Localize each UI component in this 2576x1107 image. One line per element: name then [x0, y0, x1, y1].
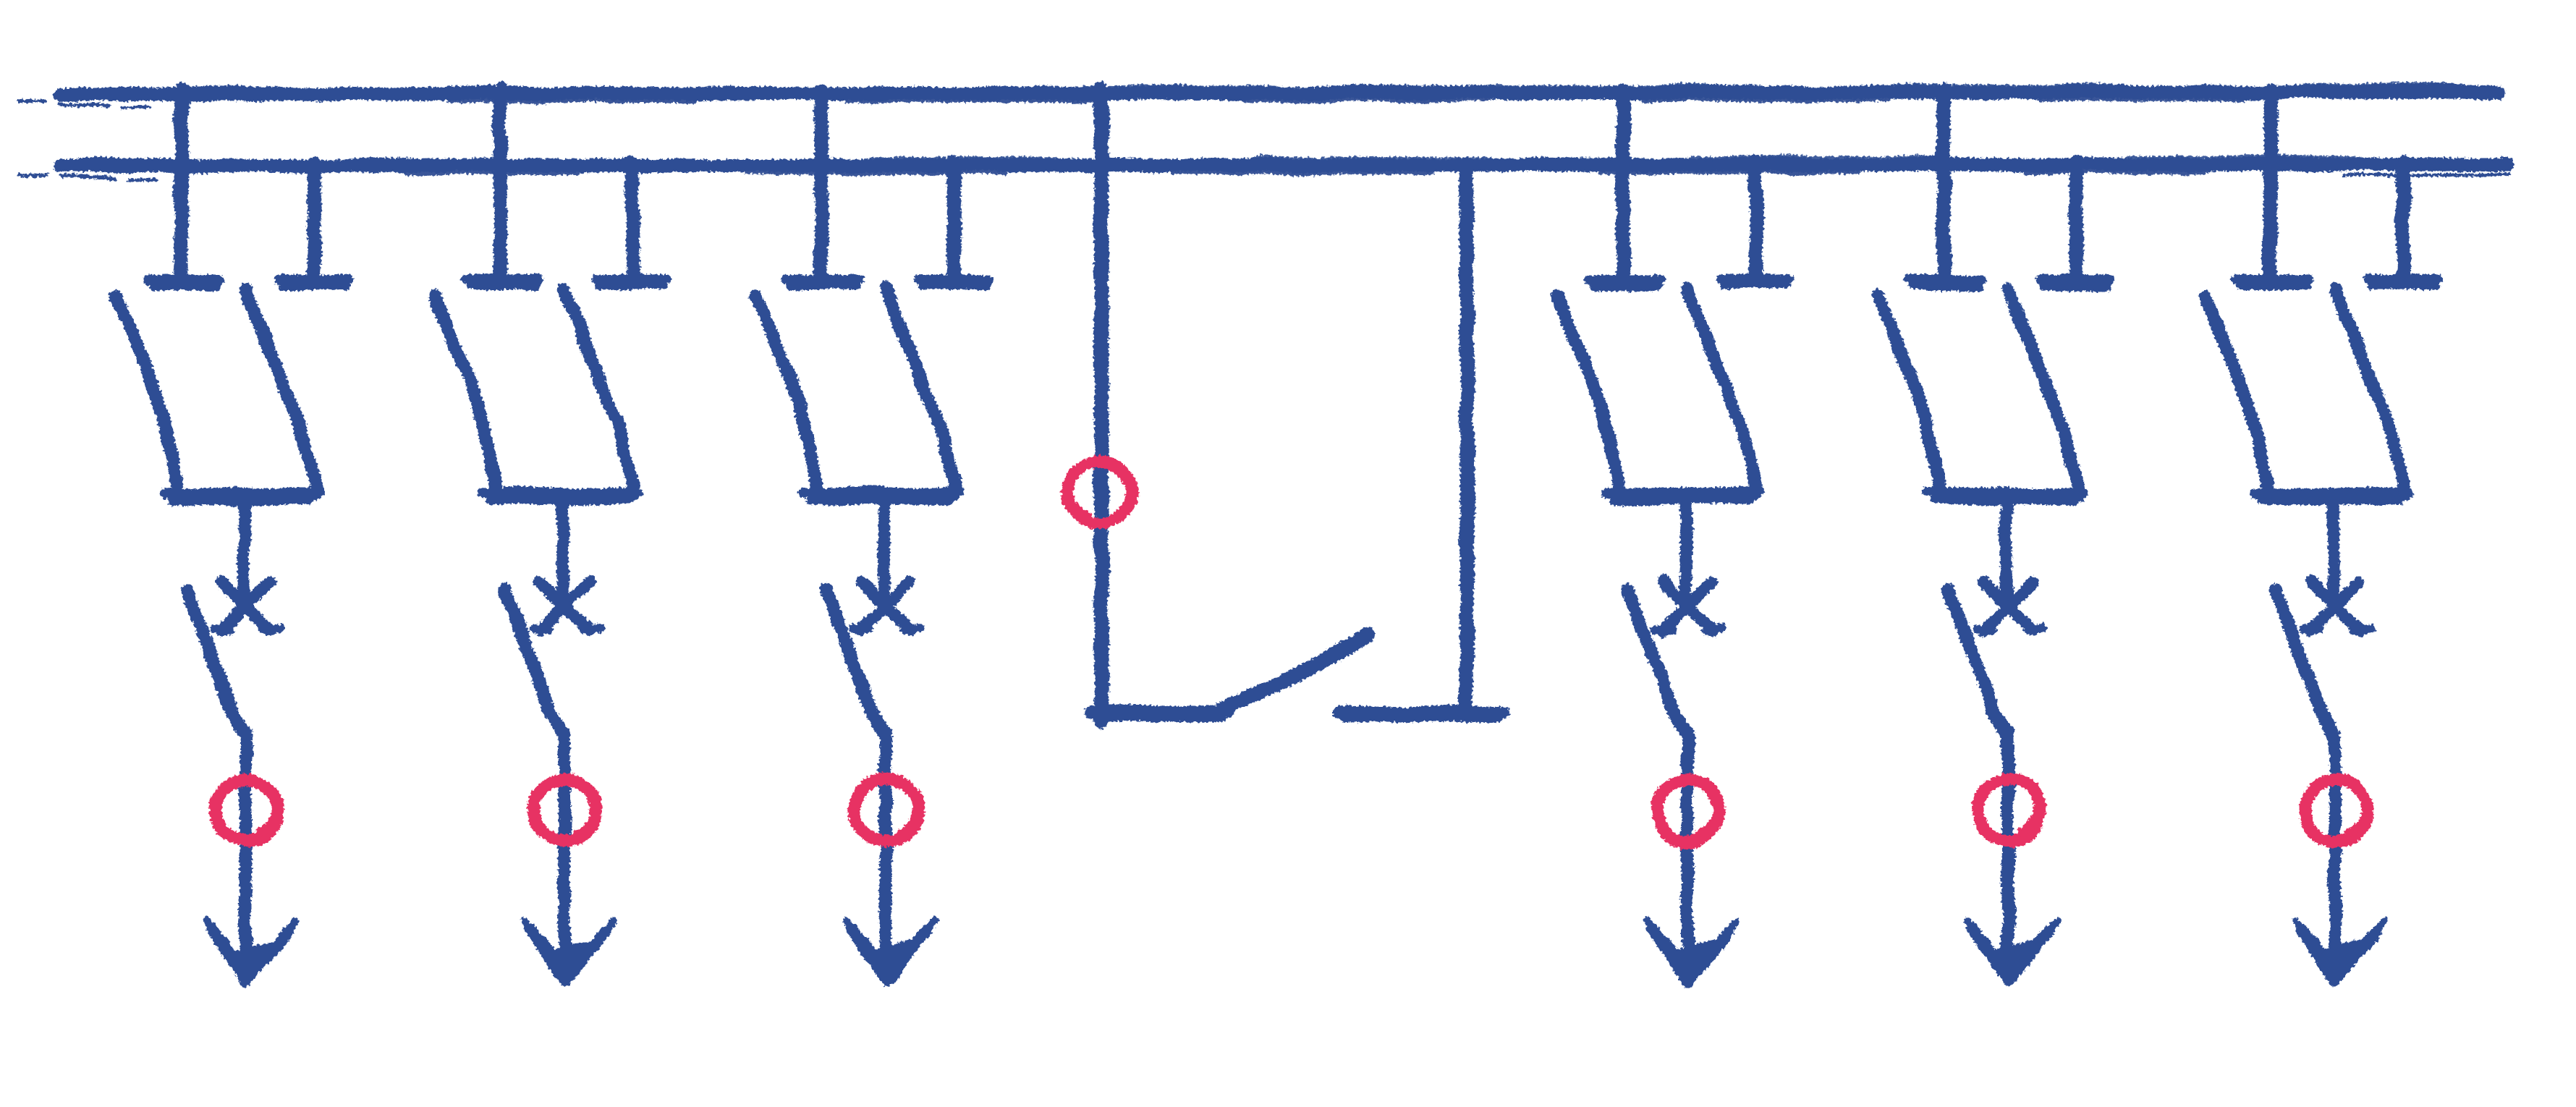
bay 4: fixed contact bar of bus-2 disconnector: [1721, 275, 1789, 284]
bay 4: outgoing feeder arrow: [1653, 928, 1729, 981]
bay 2: disconnector tap from busbar 1: [493, 90, 507, 282]
bay 2: feeder wire through CT: [559, 732, 571, 954]
coupler: current transformer (red ring): [1068, 462, 1130, 524]
bay 5: blade of bus-1 disconnector: [1878, 296, 1940, 496]
bay 1: feeder wire through CT: [240, 732, 253, 954]
bay 5: fixed contact bar of bus-1 disconnector: [1909, 275, 1981, 284]
bay 1: junction bar joining both disconnectors: [165, 488, 320, 498]
bay 4: disconnector tap from busbar 2: [1748, 162, 1763, 282]
bay 1: disconnector tap from busbar 1: [174, 90, 189, 282]
busbar 2 (lower bus W2): [60, 164, 2508, 166]
bay 6: junction bar joining both disconnectors: [2254, 488, 2409, 498]
bay 5: outgoing feeder arrow: [1973, 928, 2049, 981]
bay 4: circuit breaker blade: [1628, 590, 1687, 735]
bay 1: wire from junction bar to circuit breaker: [244, 498, 245, 605]
bay 2: wire from junction bar to circuit breaker: [562, 498, 563, 605]
bay 6: outgoing feeder arrow: [2300, 928, 2376, 981]
bay 2: current transformer (red ring): [534, 779, 596, 841]
bay 6: disconnector tap from busbar 1: [2263, 90, 2278, 282]
bay 2: circuit breaker blade: [505, 590, 564, 735]
bay 2: junction bar joining both disconnectors: [483, 488, 638, 498]
bay 2: disconnector tap from busbar 2: [625, 162, 640, 282]
bay 3: outgoing feeder arrow: [851, 928, 927, 981]
bay 5: disconnector tap from busbar 2: [2069, 162, 2083, 282]
bay 1: fixed contact bar of bus-1 disconnector: [147, 275, 219, 284]
bay 3: blade of bus-2 disconnector: [885, 288, 955, 495]
bay 6: current transformer (red ring): [2305, 779, 2367, 841]
bay 3: fixed contact bar of bus-1 disconnector: [787, 275, 859, 284]
bay 5: feeder wire through CT: [2002, 732, 2014, 954]
bay 3: fixed contact bar of bus-2 disconnector: [919, 275, 988, 284]
bay 1: fixed contact bar of bus-2 disconnector: [279, 275, 348, 284]
coupler: wire from busbar 2: [1459, 164, 1474, 716]
bay 2: circuit breaker fixed contact (X): [540, 582, 589, 631]
bay 5: circuit breaker blade: [1949, 590, 2008, 735]
bay 1: blade of bus-1 disconnector: [116, 296, 178, 496]
bay 3: disconnector tap from busbar 2: [946, 162, 961, 282]
bay 5: wire from junction bar to circuit breaker: [2006, 498, 2007, 605]
bay 5: blade of bus-2 disconnector: [2007, 288, 2077, 495]
bay 1: circuit breaker blade: [187, 590, 246, 735]
bay 4: fixed contact bar of bus-1 disconnector: [1588, 275, 1661, 284]
bay 6: circuit breaker blade: [2276, 590, 2335, 735]
bay 4: wire from junction bar to circuit breaker: [1685, 498, 1686, 605]
bay 3: circuit breaker blade: [826, 590, 886, 735]
busbar 1 (upper bus W1): [60, 92, 2498, 94]
bay 2: blade of bus-2 disconnector: [564, 288, 634, 495]
bay 2: fixed contact bar of bus-2 disconnector: [598, 275, 666, 284]
bay 6: wire from junction bar to circuit breaker: [2333, 498, 2334, 605]
bay 1: circuit breaker fixed contact (X): [221, 582, 271, 631]
bay 5: fixed contact bar of bus-2 disconnector: [2041, 275, 2110, 284]
bay 2: fixed contact bar of bus-1 disconnector: [465, 275, 538, 284]
bay 6: feeder wire through CT: [2329, 732, 2342, 954]
bay 1: outgoing feeder arrow: [211, 928, 287, 981]
bay 1: disconnector tap from busbar 2: [307, 162, 321, 282]
coupler: lower-right wire: [1339, 705, 1504, 718]
bay 4: junction bar joining both disconnectors: [1606, 488, 1761, 498]
bay 3: current transformer (red ring): [855, 779, 918, 841]
bay 5: disconnector tap from busbar 1: [1936, 90, 1951, 282]
bay 4: blade of bus-1 disconnector: [1557, 296, 1619, 496]
bay 5: circuit breaker fixed contact (X): [1983, 582, 2033, 631]
busbar 1 brush lead-in dashes: [19, 102, 45, 103]
bay 4: feeder wire through CT: [1682, 732, 1694, 954]
bay 6: blade of bus-2 disconnector: [2334, 288, 2405, 495]
bay 3: circuit breaker fixed contact (X): [861, 582, 910, 631]
busbar 2 brush lead-in dashes: [19, 174, 48, 175]
bay 6: circuit breaker fixed contact (X): [2310, 582, 2360, 631]
bay 3: disconnector tap from busbar 1: [814, 90, 829, 282]
bay 4: current transformer (red ring): [1657, 779, 1719, 841]
bay 5: current transformer (red ring): [1978, 779, 2040, 841]
bay 6: disconnector tap from busbar 2: [2396, 162, 2410, 282]
bay 3: feeder wire through CT: [880, 732, 892, 954]
coupler: open switch blade: [1221, 635, 1368, 710]
bay 6: fixed contact bar of bus-2 disconnector: [2368, 275, 2437, 284]
bay 4: blade of bus-2 disconnector: [1687, 288, 1757, 495]
bay 1: blade of bus-2 disconnector: [245, 288, 315, 495]
bay 4: disconnector tap from busbar 1: [1616, 90, 1630, 282]
busbar 2 right end under-streak: [2344, 174, 2509, 176]
bay 5: junction bar joining both disconnectors: [1927, 488, 2082, 498]
bay 3: blade of bus-1 disconnector: [755, 296, 818, 496]
bay 2: blade of bus-1 disconnector: [434, 296, 496, 496]
coupler: wire from busbar 1: [1094, 88, 1109, 720]
bay 4: circuit breaker fixed contact (X): [1663, 582, 1712, 631]
bay 6: fixed contact bar of bus-1 disconnector: [2236, 275, 2308, 284]
coupler: lower-left wire: [1091, 705, 1228, 718]
bay 6: blade of bus-1 disconnector: [2205, 296, 2267, 496]
bay 3: junction bar joining both disconnectors: [805, 488, 959, 498]
bay 3: wire from junction bar to circuit breaker: [884, 498, 884, 605]
bay 1: current transformer (red ring): [216, 779, 278, 841]
bay 2: outgoing feeder arrow: [530, 928, 606, 981]
